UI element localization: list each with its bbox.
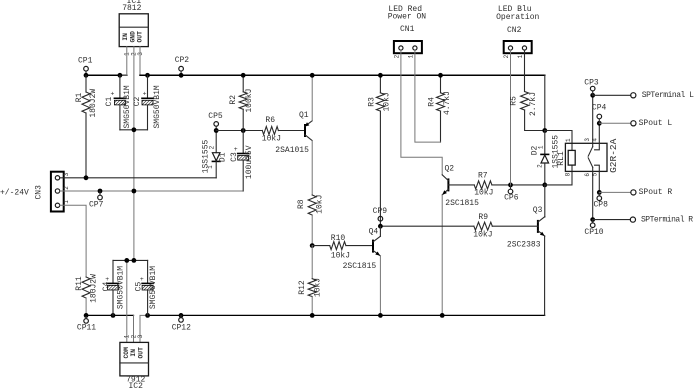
svg-text:SPout L: SPout L xyxy=(639,119,673,128)
test point CP10 xyxy=(590,217,595,222)
wire CN3 pin2 (GND) to C3 xyxy=(60,190,243,192)
relay contact pin5 fixed xyxy=(595,165,600,192)
test point CP5 xyxy=(215,127,217,131)
svg-text:G2R-2A: G2R-2A xyxy=(608,138,619,173)
svg-text:R11: R11 xyxy=(75,276,84,291)
IC1 7812 regulator xyxy=(119,14,148,47)
svg-text:SPTerminal R: SPTerminal R xyxy=(641,215,693,224)
svg-text:C4: C4 xyxy=(102,282,111,292)
resistor R6 10kJ xyxy=(262,127,278,135)
test point CP1 xyxy=(85,71,87,75)
svg-text:2SC1815: 2SC1815 xyxy=(343,262,377,271)
svg-text:SMG50VB1M: SMG50VB1M xyxy=(153,85,162,128)
svg-text:C1: C1 xyxy=(105,97,114,107)
wire Q1 emitter to +12V rail xyxy=(311,75,313,121)
wire Q3 base to R9 xyxy=(492,225,538,227)
svg-text:R7: R7 xyxy=(478,171,488,180)
transistor Q3 2SC2383 (NPN) xyxy=(544,185,546,217)
svg-text:4.7kJ: 4.7kJ xyxy=(443,91,452,115)
wire IC2 COM column xyxy=(126,260,128,342)
test point CP4 xyxy=(597,121,602,126)
svg-text:Operation: Operation xyxy=(496,13,539,22)
node ground/C1C2 junction xyxy=(132,127,137,132)
wire CN3 pin3 (+24V) to D1 anode xyxy=(60,177,216,179)
node Q1 emitter rail junction xyxy=(310,73,315,78)
svg-text:3: 3 xyxy=(137,334,144,338)
node junction CP1/R1 xyxy=(84,73,89,78)
wire node to relay coil pin1 xyxy=(545,131,572,151)
connector CN3 +/-24V input xyxy=(51,172,64,212)
wire +12V rail xyxy=(140,74,545,76)
svg-text:CP3: CP3 xyxy=(584,78,599,87)
wire Q4 emitter to -12V rail xyxy=(379,256,381,316)
svg-text:Q3: Q3 xyxy=(533,206,543,215)
svg-text:1: 1 xyxy=(565,138,572,142)
node C5 junction xyxy=(145,313,150,318)
wire Q1 collector to R8 xyxy=(311,141,313,195)
svg-text:100u35V: 100u35V xyxy=(245,145,254,179)
svg-text:CN2: CN2 xyxy=(507,26,522,35)
terminal SPout R xyxy=(631,190,636,195)
svg-text:10kJ: 10kJ xyxy=(473,230,492,239)
svg-text:7812: 7812 xyxy=(122,4,141,13)
svg-text:1: 1 xyxy=(537,145,544,149)
svg-text:R2: R2 xyxy=(229,95,238,105)
node R2 top junction xyxy=(241,73,246,78)
svg-text:C2: C2 xyxy=(133,97,142,107)
svg-text:R3: R3 xyxy=(368,97,377,107)
svg-text:OUT: OUT xyxy=(137,31,144,43)
svg-text:180J2W: 180J2W xyxy=(89,89,98,118)
svg-text:2SC2383: 2SC2383 xyxy=(507,241,541,250)
node R3 top junction xyxy=(378,73,383,78)
relay RL1 G2R-2A xyxy=(565,143,607,171)
wire -12V bottom rail xyxy=(148,314,545,316)
wire R9 to Q4 collector node xyxy=(380,225,474,227)
resistor R10 10kJ xyxy=(312,245,330,247)
svg-text:2: 2 xyxy=(393,54,400,58)
svg-text:3: 3 xyxy=(63,172,70,176)
svg-text:C3: C3 xyxy=(230,152,239,162)
svg-text:+: + xyxy=(110,91,114,98)
node CP2 junction xyxy=(179,73,184,78)
resistor R8 10kJ xyxy=(308,195,316,215)
test point CP11 xyxy=(84,313,89,318)
node D2 bottom / Q3 collector junction xyxy=(542,183,547,188)
svg-text:3: 3 xyxy=(584,138,591,142)
svg-text:R6: R6 xyxy=(265,116,275,125)
node Q2 emitter junction xyxy=(440,313,445,318)
svg-text:1: 1 xyxy=(517,54,524,58)
wire IC1 OUT pin to rail xyxy=(140,47,148,76)
resistor R11 180J2W xyxy=(82,277,90,298)
svg-text:100kJ: 100kJ xyxy=(245,89,254,113)
node COM junction xyxy=(124,258,129,263)
node R1 bottom junction xyxy=(84,175,89,180)
wire R8 to R10 node xyxy=(311,215,313,246)
node R12 bottom junction xyxy=(310,313,315,318)
svg-text:1: 1 xyxy=(408,54,415,58)
svg-text:180J2W: 180J2W xyxy=(90,274,99,303)
wire top-left rail (+24V in) xyxy=(86,74,127,76)
resistor R12 10kJ xyxy=(311,246,313,279)
capacitor C3 100u35V xyxy=(242,131,244,154)
node R2/C3 junction xyxy=(241,128,246,133)
node ground bus / pin2 junction xyxy=(132,189,137,194)
wire Q2 emitter to -12V rail xyxy=(441,195,443,316)
svg-text:CP1: CP1 xyxy=(78,57,93,66)
wire CN3 pin1 (-24V) down to R11 xyxy=(60,205,86,277)
wire -12V bottom rail left segment xyxy=(86,314,133,316)
svg-text:CP8: CP8 xyxy=(594,201,609,210)
svg-text:IN: IN xyxy=(130,349,137,357)
svg-text:CP6: CP6 xyxy=(504,194,519,203)
svg-text:+: + xyxy=(143,91,147,98)
svg-text:10kJ: 10kJ xyxy=(314,278,323,297)
node relay coil / D2 / R5 junction xyxy=(542,128,547,133)
svg-text:+/-24V: +/-24V xyxy=(0,189,29,198)
diode D2 1SS1555 xyxy=(544,131,546,154)
svg-text:COM: COM xyxy=(123,347,130,359)
wire CN1 pin2 to Q2 collector xyxy=(401,50,442,175)
relay contact pin6 blade xyxy=(588,158,593,168)
svg-text:R4: R4 xyxy=(428,97,437,107)
svg-text:CP4: CP4 xyxy=(592,103,607,112)
diode D1 1SS1555 xyxy=(215,131,217,153)
svg-text:C5: C5 xyxy=(135,282,144,292)
wire IC2 IN pin elbow xyxy=(133,315,135,342)
svg-text:D1: D1 xyxy=(218,152,227,162)
terminal SPTerminal R xyxy=(630,217,635,222)
wire CP4 to SPout L xyxy=(599,122,631,124)
resistor R1 180J2W xyxy=(85,75,87,92)
node C2/rail junction xyxy=(145,73,150,78)
svg-text:Q4: Q4 xyxy=(369,228,379,237)
node CP5/D1 junction xyxy=(214,128,219,133)
wire C1-C2 bottom to ground bus xyxy=(120,129,148,131)
svg-text:SMG50VB1M: SMG50VB1M xyxy=(117,266,126,309)
svg-text:R8: R8 xyxy=(297,199,306,209)
svg-text:IC2: IC2 xyxy=(128,382,143,391)
svg-text:OUT: OUT xyxy=(137,347,144,359)
svg-text:Power ON: Power ON xyxy=(388,13,427,22)
wire CN2 pin2 down to CP6 node xyxy=(510,50,512,185)
node CP9 / R3 / Q4 collector junction xyxy=(378,224,383,229)
svg-text:+: + xyxy=(234,146,238,153)
resistor R9 10kJ xyxy=(474,222,492,230)
svg-text:CP9: CP9 xyxy=(373,207,388,216)
test point CP3 xyxy=(590,93,595,98)
wire C4-C5 top (ground) xyxy=(113,259,148,261)
svg-text:1: 1 xyxy=(207,165,214,169)
capacitor C2 SMG50VB1M xyxy=(147,75,149,98)
node Q4 emitter junction xyxy=(378,313,383,318)
relay contact pin3 blade xyxy=(592,95,594,146)
capacitor C1 SMG50VB1M xyxy=(119,75,121,98)
svg-text:Q1: Q1 xyxy=(299,111,309,120)
svg-text:SMG50VB1M: SMG50VB1M xyxy=(149,266,158,309)
node R8/R10/R12 junction xyxy=(310,243,315,248)
wire relay coil pin8 to node xyxy=(545,165,572,185)
svg-text:1: 1 xyxy=(63,200,70,204)
node C4 junction xyxy=(111,313,116,318)
resistor R2 100kJ xyxy=(242,75,244,92)
svg-text:CN3: CN3 xyxy=(35,185,44,200)
svg-text:SPout R: SPout R xyxy=(639,188,673,197)
capacitor C5 SMG50VB1M xyxy=(147,260,149,283)
wire IC1 IN pin to rail xyxy=(120,47,127,76)
transistor Q4 2SC1815 (NPN) xyxy=(379,226,381,236)
wire R6 to Q1 base xyxy=(278,130,305,132)
svg-text:CP10: CP10 xyxy=(584,228,603,237)
wire CP3 to SPTerminal L xyxy=(593,94,631,96)
wire R7 to D2/coil node xyxy=(492,184,545,186)
svg-text:CN1: CN1 xyxy=(400,25,415,34)
capacitor C4 SMG50VB1M xyxy=(112,260,114,283)
transistor Q2 2SC1815 (NPN, mirrored) xyxy=(447,179,449,190)
svg-text:SPTerminal L: SPTerminal L xyxy=(642,91,694,100)
svg-text:CP2: CP2 xyxy=(175,56,190,65)
terminal SPout L xyxy=(631,121,636,126)
svg-text:2: 2 xyxy=(503,54,510,58)
wire Q2 base to R7 xyxy=(448,184,474,186)
wire CP10 to SPTerminal R xyxy=(593,219,631,221)
svg-text:CP11: CP11 xyxy=(77,324,96,333)
svg-text:2: 2 xyxy=(63,186,70,190)
IC2 7912 regulator xyxy=(120,342,149,376)
node ground bus bottom junction xyxy=(132,258,137,263)
node C1/rail junction xyxy=(118,73,123,78)
node R4 top junction xyxy=(438,73,443,78)
svg-text:RL1: RL1 xyxy=(557,151,566,166)
svg-text:2.7kJ: 2.7kJ xyxy=(529,92,538,116)
svg-text:10kJ: 10kJ xyxy=(383,92,392,111)
transistor Q1 2SA1015 (PNP) xyxy=(304,125,306,136)
relay contact pin4 fixed xyxy=(595,123,600,150)
svg-text:10kJ: 10kJ xyxy=(331,251,350,260)
wire CP5 node to R6 xyxy=(216,130,262,132)
resistor R4 4.7kJ xyxy=(440,75,442,93)
svg-text:Q2: Q2 xyxy=(445,164,455,173)
svg-text:6: 6 xyxy=(584,173,591,177)
wire IC1 GND column (ground bus) xyxy=(133,47,135,261)
resistor R3 10kJ xyxy=(379,75,381,93)
svg-text:10kJ: 10kJ xyxy=(315,195,324,214)
wire CN1 pin1 to R4 bottom xyxy=(415,50,441,142)
svg-text:R5: R5 xyxy=(510,96,519,106)
wire +12V rail drop to relay node xyxy=(544,75,546,130)
svg-text:2: 2 xyxy=(537,164,544,168)
svg-text:2SC1815: 2SC1815 xyxy=(445,199,479,208)
svg-text:2: 2 xyxy=(209,145,216,149)
svg-text:CP12: CP12 xyxy=(172,323,191,332)
test point CP7 xyxy=(98,189,103,194)
terminal SPTerminal L xyxy=(631,93,636,98)
svg-text:2SA1015: 2SA1015 xyxy=(275,146,309,155)
svg-text:IN: IN xyxy=(122,33,129,41)
test point CP2 xyxy=(180,71,182,75)
test point CP12 xyxy=(179,313,184,318)
svg-text:R9: R9 xyxy=(478,213,488,222)
wire CP8 to SPout R xyxy=(599,191,631,193)
svg-text:R10: R10 xyxy=(331,234,346,243)
resistor R7 10kJ xyxy=(474,181,492,189)
svg-text:CP7: CP7 xyxy=(89,200,104,209)
svg-text:R1: R1 xyxy=(75,93,84,103)
svg-text:R12: R12 xyxy=(298,280,307,295)
wire rail corner up to Q3 emitter xyxy=(544,236,546,315)
svg-text:8: 8 xyxy=(565,172,572,176)
wire IC2 OUT pin elbow xyxy=(140,315,148,342)
svg-text:10kJ: 10kJ xyxy=(474,189,493,198)
svg-text:10kJ: 10kJ xyxy=(262,135,281,144)
test point CP8 xyxy=(597,190,602,195)
svg-text:GND: GND xyxy=(130,31,137,43)
test point CP6 xyxy=(508,183,513,188)
test point CP9 xyxy=(378,216,383,221)
svg-text:SMG50VB1M: SMG50VB1M xyxy=(123,85,132,128)
resistor R5 2.7kJ xyxy=(524,50,526,91)
svg-text:CP5: CP5 xyxy=(208,112,223,121)
